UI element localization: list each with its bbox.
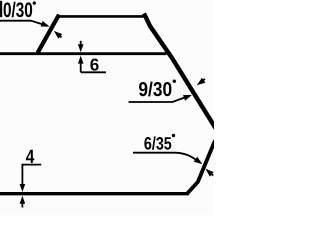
cut character sliver at left edge — [0, 1, 2, 17]
dimension 4 lower arrow (points up at bottom line) — [20, 196, 26, 208]
label 9/30 degree dot — [173, 80, 176, 83]
dimension 6 upper arrow (points down at middle line) — [78, 41, 84, 52]
label 0/30 degree dot — [33, 1, 36, 4]
label 0/30 text — [0, 0, 36, 22]
dimension 4 leader foot — [22, 165, 41, 175]
left bevel thick line — [38, 15, 59, 53]
leader line for 0/30 — [0, 21, 48, 26]
bottom edge line — [0, 192, 189, 195]
svg-text:6/35: 6/35 — [144, 133, 172, 153]
label 9/30 text — [138, 79, 176, 101]
label 6/35 degree dot — [172, 134, 175, 137]
leader line for 9/30 — [129, 96, 190, 102]
dimension 4 upper arrow (points down at bottom line) — [20, 174, 26, 192]
svg-text:6: 6 — [90, 55, 99, 75]
opposing arrowhead right of lower bevel — [205, 169, 213, 177]
opposing arrowhead right of left bevel — [54, 31, 62, 39]
leader arrowhead toward left bevel — [41, 21, 50, 27]
leader arrowhead toward right bevel — [183, 95, 192, 101]
svg-text:9/30: 9/30 — [138, 79, 172, 101]
right bevel lower thick line — [187, 141, 215, 194]
opposing arrowhead right of right bevel — [197, 78, 206, 85]
leader line for 6/35 — [133, 153, 197, 161]
right bevel upper thick line — [144, 13, 217, 130]
leader arrowhead toward lower right bevel — [194, 157, 203, 164]
dimension 6 lower arrow (points up at middle line) — [78, 56, 84, 73]
svg-text:0/30: 0/30 — [3, 0, 33, 22]
label 6/35 text — [144, 133, 175, 153]
middle horizontal line — [0, 52, 167, 55]
dimension 6 leader foot — [81, 71, 106, 73]
top edge line — [58, 15, 147, 18]
